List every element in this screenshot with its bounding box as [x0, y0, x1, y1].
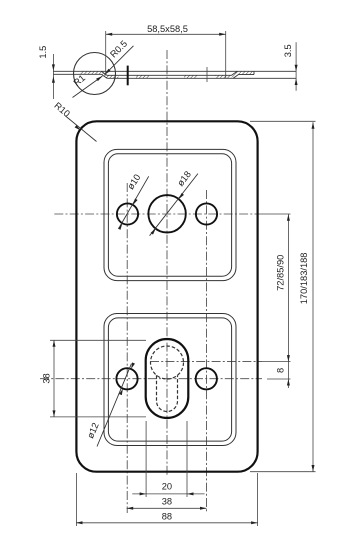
svg-text:58,5x58,5: 58,5x58,5 [147, 24, 188, 34]
svg-text:ø10: ø10 [125, 172, 142, 191]
svg-text:72/85/90: 72/85/90 [275, 255, 285, 291]
svg-text:3.5: 3.5 [283, 44, 293, 57]
svg-text:ø12: ø12 [85, 421, 100, 440]
svg-text:20: 20 [162, 482, 172, 492]
svg-text:88: 88 [162, 511, 172, 521]
svg-text:1.5: 1.5 [38, 46, 48, 59]
svg-text:R10: R10 [52, 100, 71, 119]
svg-text:38: 38 [42, 373, 52, 383]
svg-text:170/183/188: 170/183/188 [299, 253, 309, 305]
svg-text:38: 38 [162, 497, 172, 507]
svg-text:R0.5: R0.5 [108, 39, 129, 60]
svg-text:ø18: ø18 [175, 169, 193, 188]
svg-text:8: 8 [275, 368, 285, 373]
